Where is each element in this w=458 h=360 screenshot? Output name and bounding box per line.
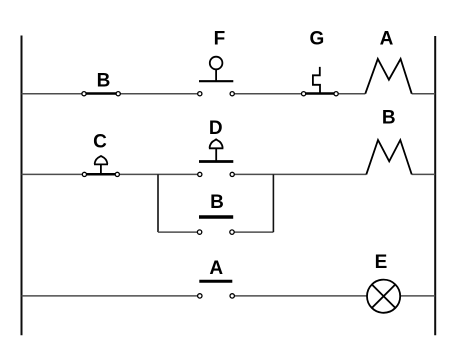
svg-text:F: F <box>214 29 226 50</box>
branch contact B left terminal <box>197 230 201 234</box>
wire rung1 G to coil A <box>336 93 365 95</box>
svg-text:B: B <box>97 71 111 92</box>
pushbutton D dome <box>209 139 224 149</box>
lamp E circle <box>367 280 400 313</box>
wire rung2 D to coil B <box>232 173 366 175</box>
contact D right terminal <box>230 172 234 176</box>
lamp E cross stroke 2 <box>372 285 395 308</box>
svg-text:E: E <box>375 252 388 273</box>
contact G closed bar <box>304 92 337 95</box>
svg-text:C: C <box>93 131 107 152</box>
contact G left terminal <box>302 92 306 96</box>
branch left vertical <box>157 174 159 232</box>
contact G right terminal <box>334 92 338 96</box>
contact C stem <box>100 164 102 174</box>
wire rung1 B to F <box>118 93 200 95</box>
wire rung2 coil B to rail <box>412 173 436 175</box>
contact C right terminal <box>115 172 119 176</box>
svg-text:B: B <box>210 192 224 213</box>
branch contact B right terminal <box>230 230 234 234</box>
branch right vertical <box>272 174 274 232</box>
wire rung1 rail to B <box>22 93 85 95</box>
pushbutton F bar <box>199 80 233 82</box>
contact B closed bar <box>84 92 118 95</box>
coil A zigzag <box>365 59 411 94</box>
contact B left terminal <box>82 92 86 96</box>
branch contact B bar <box>199 215 233 218</box>
contact C dome <box>94 156 108 164</box>
contact C left terminal <box>82 172 86 176</box>
contact F right terminal <box>230 92 234 96</box>
pushbutton F head <box>210 57 223 70</box>
contact B right terminal <box>116 92 120 96</box>
right power rail <box>434 36 436 335</box>
branch wire right <box>232 231 273 233</box>
lamp E cross stroke 1 <box>372 285 395 308</box>
branch wire left <box>158 231 200 233</box>
wire rung1 F to G <box>232 93 303 95</box>
contact A right terminal <box>230 294 234 298</box>
pushbutton D bar <box>199 160 233 163</box>
svg-text:G: G <box>310 29 325 50</box>
svg-text:D: D <box>209 118 223 139</box>
svg-text:A: A <box>380 28 394 49</box>
left power rail <box>21 36 23 336</box>
contact G z-shaped actuator <box>313 67 320 94</box>
contact C closed bar <box>84 173 117 176</box>
wire rung2 C to D <box>117 173 200 175</box>
contact F left terminal <box>198 92 202 96</box>
contact A left terminal <box>198 294 202 298</box>
wire rung1 coil A to rail <box>412 93 436 95</box>
svg-text:B: B <box>382 108 396 129</box>
coil B zigzag <box>366 140 411 174</box>
pushbutton F stem <box>215 69 217 81</box>
wire rung3 rail to A <box>22 295 200 297</box>
wire rung3 A to lamp <box>232 295 367 297</box>
wire rung3 lamp to rail <box>400 295 435 297</box>
wire rung2 rail to C <box>22 173 85 175</box>
svg-text:A: A <box>209 258 223 279</box>
pushbutton D stem <box>215 148 217 162</box>
contact D left terminal <box>198 172 202 176</box>
contact A bar <box>199 280 232 283</box>
